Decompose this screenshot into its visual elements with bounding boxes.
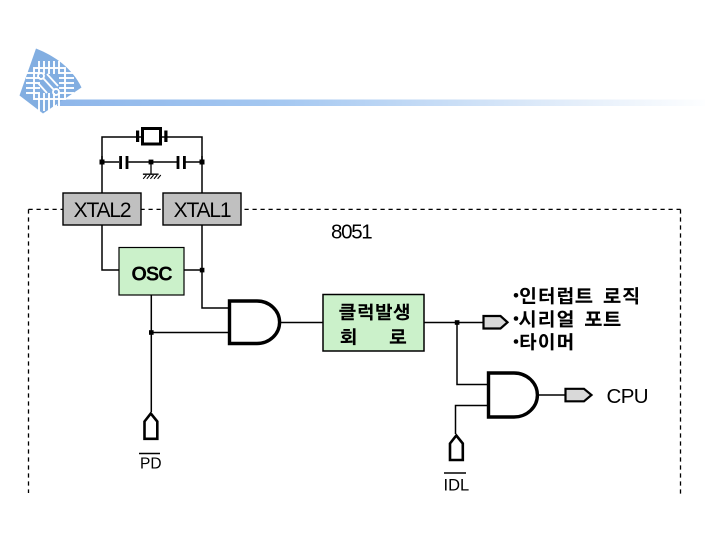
block arrow to peripherals: [484, 316, 508, 329]
clock generator box: [323, 295, 424, 352]
svg-text:PD: PD: [140, 455, 162, 472]
block arrow to CPU: [566, 389, 592, 402]
wire: top loop over crystal: [102, 137, 202, 162]
XTAL2 pin box: [63, 193, 141, 225]
wire junction to AND1 lower input: [151, 332, 228, 334]
bullet list: peripherals: [514, 287, 638, 350]
AND gate U1: [230, 301, 280, 344]
PD input pin symbol: [145, 414, 158, 439]
wire IDL to AND2 lower input: [456, 406, 489, 435]
wire OSC right to XTAL1 line: [184, 269, 202, 271]
node: XTAL2 cap junction: [100, 160, 105, 165]
IDL input pin symbol: [450, 436, 463, 461]
XTAL1 pin box: [163, 193, 241, 225]
label 회: [341, 328, 356, 345]
svg-text:XTAL1: XTAL1: [174, 199, 231, 222]
wire AND1 output: [279, 322, 323, 324]
svg-text:CPU: CPU: [607, 385, 648, 408]
node: XTAL1 cap junction: [200, 160, 205, 165]
capacitor C1: [119, 156, 128, 169]
node: center cap junction: [149, 160, 154, 165]
wire junction down to AND2 top input: [457, 323, 488, 385]
capacitor C2: [177, 156, 186, 169]
8051 dashed boundary box: [29, 209, 681, 497]
logo: blue circuit-chip clipart: [20, 49, 82, 114]
wire AND2 output: [537, 394, 565, 396]
AND gate U2: [489, 373, 538, 417]
label 클럭발생: [339, 304, 409, 321]
node clock output junction: [455, 320, 460, 325]
label PD (active low): [139, 454, 162, 473]
OSC box: [119, 248, 184, 296]
label IDL (active low): [444, 473, 470, 495]
label 로: [390, 329, 406, 343]
svg-text:OSC: OSC: [131, 264, 172, 286]
header gradient bar: [57, 100, 705, 107]
node OSC-XTAL1 junction: [200, 268, 205, 273]
ground: [143, 164, 161, 179]
wire clockbox output: [424, 322, 483, 324]
wire XTAL1 down: [202, 225, 228, 308]
wire OSC bottom to PD: [150, 295, 152, 412]
svg-text:8051: 8051: [331, 221, 372, 244]
crystal Y1: [136, 129, 168, 145]
svg-text:IDL: IDL: [444, 477, 470, 495]
wire: capacitor row: [101, 156, 103, 193]
wire XTAL2 to OSC: [102, 225, 119, 270]
svg-text:XTAL2: XTAL2: [74, 199, 131, 222]
node OSC-PD junction: [149, 330, 154, 335]
